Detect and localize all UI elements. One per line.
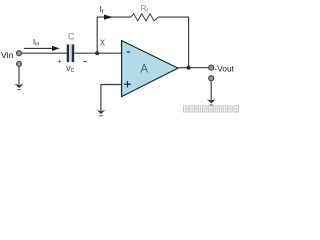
op-amp inverting input minus sign: [127, 51, 130, 53]
wire non-inverting to ground: [100, 85, 102, 111]
wire feedback top left segment: [97, 16, 131, 18]
ground (non-inverting input): [96, 110, 105, 115]
wire feedback left vertical: [96, 17, 98, 53]
terminal Vin lower: [17, 61, 22, 66]
capacitor C left plate: [67, 44, 69, 62]
ground (input): [14, 84, 23, 89]
wire Vin lower terminal to ground: [18, 67, 20, 85]
resistor Rf: [131, 14, 159, 21]
svg-text:C: C: [68, 31, 75, 41]
svg-text:Rf: Rf: [141, 4, 149, 14]
wire resistor to right corner: [158, 16, 189, 18]
capacitor C right plate: [72, 44, 74, 62]
svg-text:VC: VC: [66, 66, 75, 74]
watermark text (blurred gray): [184, 106, 239, 112]
svg-text:A: A: [140, 64, 148, 76]
terminal Vout upper: [209, 65, 214, 70]
op-amp A body: [122, 41, 178, 97]
capacitor C dielectric gap: [69, 44, 72, 62]
svg-text:Vin: Vin: [1, 50, 14, 60]
junction dot (output feedback node): [187, 66, 191, 70]
ground (output): [207, 99, 216, 104]
terminal Vout lower: [209, 76, 214, 81]
svg-text:X: X: [100, 38, 106, 47]
wire non-inverting input: [101, 84, 122, 86]
polarity minus (right of C): [84, 61, 87, 63]
wire Vin to capacitor: [22, 52, 67, 54]
wire capacitor to op-amp inverting input: [74, 52, 121, 54]
current arrow If head: [104, 15, 113, 20]
current arrow Iin: [24, 47, 53, 49]
wire feedback right vertical: [188, 17, 190, 68]
op-amp non-inverting input plus sign: [124, 83, 131, 85]
node X junction dot: [95, 51, 99, 55]
svg-text:+: +: [57, 59, 61, 66]
svg-text:-Vout: -Vout: [214, 64, 234, 74]
wire Vout lower terminal to ground: [210, 81, 212, 100]
wire op-amp output: [178, 67, 209, 69]
terminal Vin upper: [17, 51, 22, 56]
svg-text:Iin: Iin: [33, 37, 39, 47]
svg-text:If: If: [100, 5, 104, 15]
